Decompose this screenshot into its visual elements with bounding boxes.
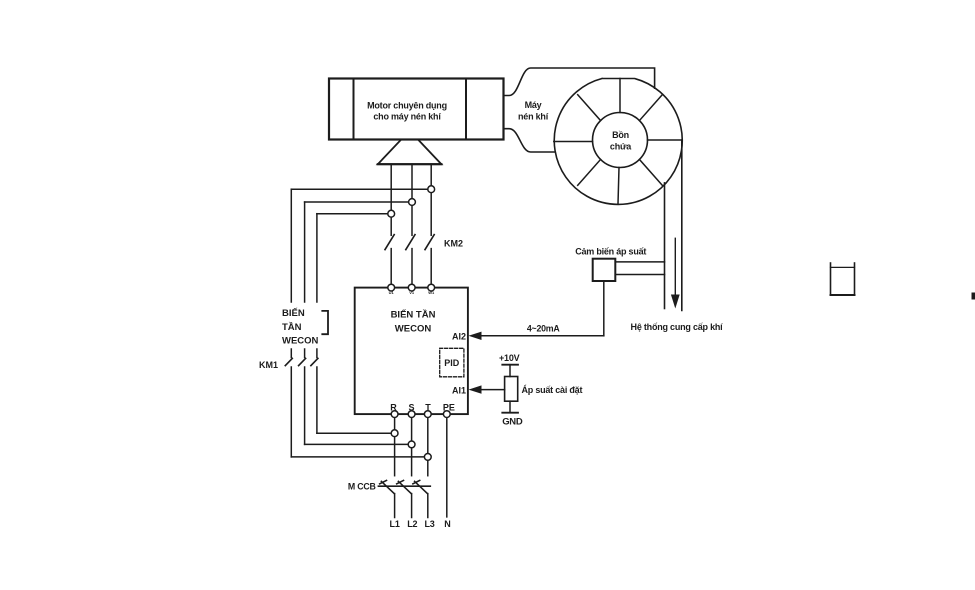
svg-text:U1: U1 — [389, 290, 395, 295]
svg-text:M CCB: M CCB — [348, 482, 376, 492]
svg-text:nén khí: nén khí — [518, 112, 549, 122]
svg-text:AI2: AI2 — [452, 331, 466, 341]
svg-text:TẦN: TẦN — [282, 322, 302, 333]
svg-text:Bồn: Bồn — [612, 130, 629, 140]
svg-text:AI1: AI1 — [452, 385, 466, 395]
svg-text:N: N — [444, 519, 450, 529]
svg-text:+10V: +10V — [499, 353, 520, 363]
svg-text:chứa: chứa — [610, 142, 632, 152]
svg-text:BIẾN TẦN: BIẾN TẦN — [391, 310, 436, 321]
svg-text:W1: W1 — [428, 290, 435, 295]
svg-text:Áp suất cài đặt: Áp suất cài đặt — [522, 385, 583, 395]
svg-text:WECON: WECON — [282, 336, 319, 347]
svg-text:4~20mA: 4~20mA — [527, 324, 561, 334]
svg-text:Máy: Máy — [525, 100, 542, 110]
svg-text:cho máy nén khí: cho máy nén khí — [373, 112, 441, 122]
svg-text:KM1: KM1 — [259, 360, 278, 370]
svg-text:T: T — [425, 403, 431, 413]
svg-text:V1: V1 — [409, 290, 415, 295]
svg-text:L3: L3 — [424, 519, 434, 529]
svg-text:R: R — [390, 403, 397, 413]
svg-text:KM2: KM2 — [444, 239, 463, 249]
svg-text:Motor chuyên dụng: Motor chuyên dụng — [367, 101, 447, 111]
svg-text:L1: L1 — [390, 519, 400, 529]
svg-text:BIẾN: BIẾN — [282, 308, 305, 319]
svg-text:Hệ thống cung cấp khí: Hệ thống cung cấp khí — [631, 322, 724, 332]
svg-text:WECON: WECON — [395, 324, 432, 335]
svg-text:L2: L2 — [407, 519, 417, 529]
svg-text:GND: GND — [502, 417, 523, 428]
svg-text:PE: PE — [443, 403, 455, 413]
svg-text:Cảm biến áp suất: Cảm biến áp suất — [575, 247, 646, 257]
svg-text:S: S — [408, 403, 414, 413]
svg-text:PID: PID — [444, 358, 460, 368]
